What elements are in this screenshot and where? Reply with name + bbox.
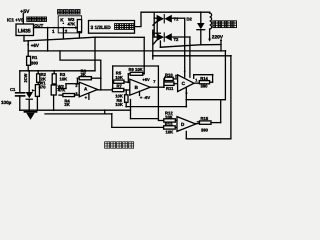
svg-text:LM35: LM35 bbox=[18, 28, 31, 34]
svg-text:470: 470 bbox=[39, 84, 47, 89]
svg-text:10K: 10K bbox=[165, 114, 173, 119]
svg-text:T1: T1 bbox=[174, 16, 180, 21]
svg-text:+6V: +6V bbox=[142, 77, 150, 82]
svg-text:10K: 10K bbox=[115, 75, 123, 80]
svg-text:2K: 2K bbox=[64, 102, 69, 107]
svg-text:47K: 47K bbox=[58, 88, 66, 93]
svg-text:R15: R15 bbox=[201, 116, 209, 121]
svg-text:T2: T2 bbox=[174, 37, 180, 42]
svg-text:220V: 220V bbox=[212, 35, 224, 41]
svg-text:1: 1 bbox=[52, 29, 55, 34]
svg-text:R9 10K: R9 10K bbox=[129, 67, 143, 72]
svg-text:R7: R7 bbox=[117, 84, 123, 89]
svg-text:2: 2 bbox=[175, 74, 177, 78]
svg-text:3: 3 bbox=[75, 92, 77, 96]
svg-text:+5V: +5V bbox=[20, 9, 30, 15]
svg-text:100µ: 100µ bbox=[1, 100, 12, 105]
svg-text:2: 2 bbox=[75, 84, 77, 88]
svg-text:47K: 47K bbox=[68, 21, 76, 26]
svg-text:IC1 +VS: IC1 +VS bbox=[7, 17, 24, 22]
svg-text:10K: 10K bbox=[115, 102, 123, 107]
svg-text:+6V: +6V bbox=[31, 43, 40, 48]
svg-text:D2: D2 bbox=[187, 16, 193, 21]
svg-text:2K: 2K bbox=[81, 72, 86, 77]
svg-text:10K: 10K bbox=[166, 130, 174, 135]
svg-text:2CW: 2CW bbox=[23, 73, 28, 82]
svg-text:-6V: -6V bbox=[144, 95, 151, 100]
svg-text:2: 2 bbox=[65, 29, 68, 34]
svg-text:390: 390 bbox=[201, 84, 209, 89]
svg-text:R14: R14 bbox=[200, 76, 208, 81]
svg-text:3 1/2LED: 3 1/2LED bbox=[91, 25, 112, 31]
svg-text:390: 390 bbox=[201, 127, 209, 132]
svg-text:R11: R11 bbox=[166, 86, 174, 91]
svg-text:300: 300 bbox=[31, 60, 39, 65]
svg-text:R13: R13 bbox=[165, 121, 173, 126]
svg-text:R10: R10 bbox=[165, 72, 173, 77]
svg-text:C1: C1 bbox=[10, 87, 16, 92]
svg-text:10K: 10K bbox=[60, 77, 68, 82]
svg-text:OUT: OUT bbox=[34, 23, 43, 28]
